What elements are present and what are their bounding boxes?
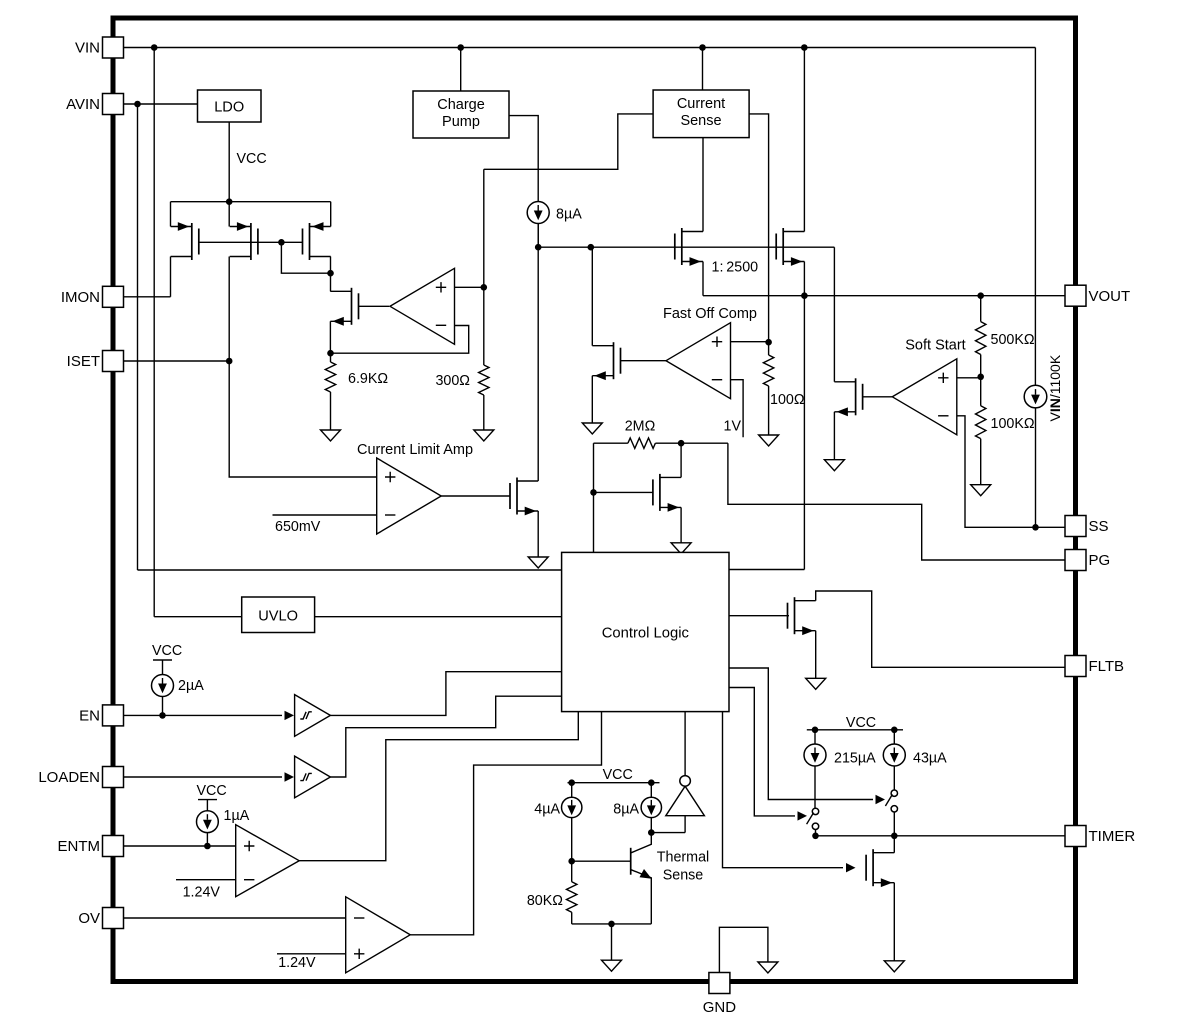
resistor R1 6.9K xyxy=(330,353,332,362)
svg-text:VCC: VCC xyxy=(603,767,633,783)
ground GND5 xyxy=(582,423,602,434)
svg-text:6.9KΩ: 6.9KΩ xyxy=(348,371,388,387)
svg-text:Thermal: Thermal xyxy=(657,850,709,866)
ground GND9 xyxy=(806,678,826,689)
pin OV xyxy=(103,908,124,929)
wire Q8 drain up to gate line xyxy=(591,247,593,346)
wire U3 plus input xyxy=(731,341,769,343)
svg-text:TIMER: TIMER xyxy=(1089,828,1136,845)
LDO U10 xyxy=(198,90,262,122)
current source I8 43uA xyxy=(883,744,905,766)
wire Q11 base lead xyxy=(572,860,631,862)
ground GND11 xyxy=(884,961,904,972)
wire control logic to VOUT rail sense xyxy=(729,569,804,571)
wire U6 gate lead xyxy=(863,396,893,398)
ground GND4 xyxy=(759,435,779,446)
ground GND1 xyxy=(321,430,341,441)
wire feedback U1 minus xyxy=(331,326,469,354)
current source I3 2uA xyxy=(152,675,174,697)
svg-text:500KΩ: 500KΩ xyxy=(991,332,1035,348)
wire Q7 drain to VIN rail xyxy=(803,48,805,232)
current source I4 1uA xyxy=(197,811,219,833)
pin PG xyxy=(1065,550,1086,571)
svg-text:650mV: 650mV xyxy=(275,519,321,535)
transistor Q3 (mirror right PMOS diode) xyxy=(330,202,332,227)
transistor Q10 (FLTB NMOS) xyxy=(794,597,796,634)
op-amp U5 (OV comp) xyxy=(346,897,411,973)
transistor Q2 (mirror middle PMOS) xyxy=(228,202,230,227)
node TIMER junctions xyxy=(812,833,819,840)
svg-text:Current Limit Amp: Current Limit Amp xyxy=(357,442,473,458)
wire control A to SW2 xyxy=(729,668,873,800)
svg-text:GND: GND xyxy=(703,999,737,1016)
transistor Q12 (timer NMOS) xyxy=(872,849,874,886)
wire Q4 source down xyxy=(329,321,331,353)
wire 650mV to U2 minus xyxy=(273,514,377,516)
ground GND6 xyxy=(671,543,691,554)
svg-text:80KΩ: 80KΩ xyxy=(527,893,563,909)
svg-text:Pump: Pump xyxy=(442,114,480,130)
transistor Q5 (current limit NMOS) xyxy=(516,478,518,515)
inverter INV1 (thermal) xyxy=(666,786,705,816)
svg-text:1V: 1V xyxy=(724,419,742,435)
wire U3 minus input 1V xyxy=(731,380,744,438)
ground GND3 xyxy=(528,557,548,568)
wire 1:2500 gate line xyxy=(538,246,834,248)
node VOUT rail junctions xyxy=(801,292,808,299)
op-amp U4 (ENTM comp) xyxy=(236,825,300,897)
wire OV pin wire xyxy=(124,917,346,919)
IC boundary box xyxy=(113,18,1076,982)
node fastoff drain junction xyxy=(588,244,595,251)
svg-text:VIN/1100K: VIN/1100K xyxy=(1047,354,1063,421)
wire PG path xyxy=(728,443,1065,560)
wire VIN rail xyxy=(124,47,1035,49)
transistor Q1 (mirror left PMOS) xyxy=(170,202,172,227)
schmitt trigger S1 (EN) xyxy=(295,695,331,737)
transistor Q8 (fast off NMOS) xyxy=(613,342,615,379)
node soft start plus junction xyxy=(977,374,984,381)
wire 2uA to EN xyxy=(162,697,164,716)
svg-text:1.24V: 1.24V xyxy=(278,955,316,971)
current source I5 4uA xyxy=(562,797,582,817)
wire AVIN down to Control Logic xyxy=(137,104,139,570)
svg-text:100Ω: 100Ω xyxy=(770,392,805,408)
transistor Q7 (sense FET right) xyxy=(782,228,784,265)
arrow EN input xyxy=(285,711,295,720)
wire timer VCC bar xyxy=(807,729,903,731)
pin TIMER xyxy=(1065,826,1086,847)
transistor Q11 (thermal BJT) xyxy=(630,848,632,875)
svg-text:1.24V: 1.24V xyxy=(183,885,221,901)
wire U6 plus input xyxy=(957,377,981,379)
pin ISET xyxy=(103,351,124,372)
node VIN rail junctions xyxy=(151,44,158,51)
wire thermal to ground xyxy=(611,924,613,960)
svg-text:VCC: VCC xyxy=(197,783,227,799)
wire EN VCC bar xyxy=(153,659,172,661)
node ISET junction xyxy=(226,358,233,365)
svg-text:300Ω: 300Ω xyxy=(435,373,470,389)
wire current sense right output xyxy=(749,114,769,343)
node ENTM junction xyxy=(204,843,211,850)
node mirror rail junction xyxy=(226,198,233,205)
wire AVIN to LDO xyxy=(124,103,198,105)
op-amp U3 (fast off comp) xyxy=(666,323,731,399)
wire VIN to current sense xyxy=(702,48,704,91)
wire U5 plus input 1.24V xyxy=(277,953,346,955)
wire Q15 drain up to gate line xyxy=(833,247,835,382)
svg-text:2MΩ: 2MΩ xyxy=(625,419,656,435)
node EN junction xyxy=(159,712,166,719)
pin SS xyxy=(1065,516,1086,537)
wire LDO VCC output xyxy=(228,122,230,202)
op-amp U1 (IMON amp) xyxy=(390,268,455,344)
svg-text:PG: PG xyxy=(1089,552,1111,569)
svg-text:ENTM: ENTM xyxy=(58,838,101,855)
node 100ohm junction xyxy=(765,339,772,346)
svg-text:4µA: 4µA xyxy=(534,802,560,818)
wire U3 output to Q8 gate xyxy=(621,360,667,362)
svg-text:LOADEN: LOADEN xyxy=(38,769,100,786)
wire Q5 source to ground xyxy=(537,511,539,557)
transistor Q4 (source follower) xyxy=(351,288,353,325)
arrow LOADEN input xyxy=(285,772,295,781)
pin EN xyxy=(103,705,124,726)
wire TIMER rail xyxy=(816,835,1066,837)
wire control D to Q12 gate xyxy=(723,712,844,868)
node Q9 gate junction xyxy=(590,489,597,496)
UVLO U14 xyxy=(242,597,315,633)
wire thermal bottom xyxy=(572,923,652,925)
ground GND10 xyxy=(602,960,622,971)
wire 1uA to ENTM xyxy=(206,832,208,846)
svg-text:Fast Off Comp: Fast Off Comp xyxy=(663,306,757,322)
wire thermal VCC bar xyxy=(568,782,660,784)
svg-text:Soft Start: Soft Start xyxy=(905,338,965,354)
wire EN pin wire xyxy=(124,714,282,716)
wire VIN to charge pump xyxy=(460,48,462,92)
svg-text:1µA: 1µA xyxy=(224,808,250,824)
resistor R6 100K xyxy=(980,377,982,406)
wire Q12 drain up xyxy=(893,836,895,853)
svg-text:VCC: VCC xyxy=(152,643,182,659)
wire control logic to Q10 gate xyxy=(729,615,789,617)
wire Q15 source to ground xyxy=(833,412,835,460)
svg-text:UVLO: UVLO xyxy=(258,609,298,625)
svg-text:8µA: 8µA xyxy=(613,802,639,818)
wire 2M left down to control logic xyxy=(593,443,595,552)
node 6.9K top junction xyxy=(327,350,334,357)
wire S1 output xyxy=(330,672,561,716)
Current Sense U12 xyxy=(653,90,749,138)
node thermal VCC junctions xyxy=(568,779,575,786)
svg-text:SS: SS xyxy=(1089,518,1109,535)
node thermal ground junction xyxy=(608,921,615,928)
Control Logic U13 xyxy=(562,552,729,711)
node 8uA junction xyxy=(535,244,542,251)
node Q3 drain junction xyxy=(327,270,334,277)
transistor Q9 (PG clamp NMOS) xyxy=(659,474,661,511)
wire Q5 drain up xyxy=(537,224,539,481)
current source I6 8uA thermal xyxy=(641,797,661,817)
resistor R7 80K xyxy=(571,861,573,882)
wire ISET pin wire xyxy=(124,360,229,362)
wire VOUT rail xyxy=(703,295,1065,297)
wire VIN down to UVLO xyxy=(153,48,155,617)
svg-text:Current: Current xyxy=(677,96,725,112)
pin VIN xyxy=(103,37,124,58)
wire Q9 drain up xyxy=(680,443,682,477)
pin AVIN xyxy=(103,94,124,115)
svg-text:8µA: 8µA xyxy=(556,207,582,223)
resistor R3 100 xyxy=(768,342,770,355)
current source I7 215uA xyxy=(804,744,826,766)
ground GND2 xyxy=(474,430,494,441)
node 2M right junction xyxy=(678,440,685,447)
svg-text:VCC: VCC xyxy=(237,151,267,167)
pin GND xyxy=(709,973,730,994)
wire Q10 drain to FLTB xyxy=(816,591,1065,667)
ground GND8 xyxy=(824,460,844,471)
svg-text:43µA: 43µA xyxy=(913,751,947,767)
wire mirror VCC rail xyxy=(171,201,331,203)
wire UVLO output xyxy=(315,616,562,618)
wire Q2 drain to ISET xyxy=(228,257,230,362)
wire U4 minus input 1.24V xyxy=(176,879,236,881)
wire gate line Q1-Q2-Q3 xyxy=(199,241,303,243)
wire charge pump output xyxy=(509,116,538,202)
wire Q9 source to ground xyxy=(680,507,682,542)
svg-text:FLTB: FLTB xyxy=(1089,658,1125,675)
wire U6 minus to SS xyxy=(957,416,1065,528)
svg-text:215µA: 215µA xyxy=(834,751,876,767)
pin ENTM xyxy=(103,836,124,857)
svg-text:OV: OV xyxy=(78,910,100,927)
wire ISET to CL amp plus xyxy=(229,361,377,477)
wire U5 output xyxy=(410,712,601,935)
wire Q3 drain to Q4 xyxy=(330,273,332,291)
wire Q6 source to VOUT rail xyxy=(702,262,704,296)
transistor Q6 (sense FET left) xyxy=(681,228,683,265)
wire Q4 gate to amp U1 xyxy=(359,305,390,307)
wire Q8 source to ground xyxy=(591,376,593,423)
wire GND pin bracket xyxy=(719,927,768,972)
wire Q12 source to ground xyxy=(893,883,895,961)
transistor Q15 (soft start NMOS) xyxy=(855,378,857,415)
svg-text:EN: EN xyxy=(79,708,100,725)
node SS junction xyxy=(1032,524,1039,531)
svg-text:VIN: VIN xyxy=(75,40,100,57)
svg-text:VOUT: VOUT xyxy=(1089,288,1131,305)
node timer VCC junctions xyxy=(812,727,819,734)
pin LOADEN xyxy=(103,767,124,788)
wire Q10 source to ground xyxy=(815,631,817,679)
current source I1 8uA xyxy=(527,202,549,224)
node mirror gate junction xyxy=(278,239,285,246)
wire VIN to current source VIN/1100K xyxy=(1034,48,1036,386)
pin VOUT xyxy=(1065,285,1086,306)
svg-text:LDO: LDO xyxy=(214,100,244,116)
wire Q7 source to VOUT rail xyxy=(803,262,805,296)
wire ENTM pin wire xyxy=(124,845,236,847)
wire INV1 input xyxy=(684,816,686,833)
svg-text:AVIN: AVIN xyxy=(66,96,100,113)
wire control logic to INV1 xyxy=(684,712,686,776)
current source I2 VIN/1100K xyxy=(1024,385,1047,408)
wire U4 output xyxy=(299,712,578,861)
Charge Pump U11 xyxy=(413,91,509,138)
wire Q9 gate lead xyxy=(594,491,653,493)
node 300ohm junction xyxy=(481,284,488,291)
node thermal base junction xyxy=(568,858,575,865)
wire Q1 drain to IMON xyxy=(170,257,172,297)
resistor R2 300 xyxy=(483,169,485,365)
op-amp U6 (soft start amp) xyxy=(892,359,957,435)
svg-text:Charge: Charge xyxy=(437,97,485,113)
wire U2 output to Q5 gate xyxy=(441,495,510,497)
ground GND12 xyxy=(758,962,778,973)
switch SW1 (215uA) xyxy=(812,808,818,814)
wire ENTM VCC bar xyxy=(198,799,217,801)
svg-text:VCC: VCC xyxy=(846,715,876,731)
svg-text:IMON: IMON xyxy=(61,289,100,306)
wire current sense left output xyxy=(484,114,653,169)
op-amp U2 (current limit amp) xyxy=(377,458,442,534)
svg-text:ISET: ISET xyxy=(67,353,100,370)
wire control B to SW1 xyxy=(729,688,795,816)
wire 8uA to gate line xyxy=(537,224,539,248)
resistor R4 2M xyxy=(594,442,628,444)
pin IMON xyxy=(103,286,124,307)
wire UVLO input xyxy=(154,616,242,618)
svg-text:100KΩ: 100KΩ xyxy=(991,416,1035,432)
wire current sense bottom to Q6 xyxy=(702,138,704,232)
wire S2 output xyxy=(330,696,561,777)
svg-text:1: 2500: 1: 2500 xyxy=(712,260,759,276)
svg-text:Sense: Sense xyxy=(663,868,704,884)
svg-text:2µA: 2µA xyxy=(178,678,204,694)
ground GND7 xyxy=(971,485,991,496)
wire U1 plus input xyxy=(455,286,484,288)
resistor R5 500K xyxy=(980,296,982,322)
node thermal BJT collector junction xyxy=(648,829,655,836)
svg-text:Control Logic: Control Logic xyxy=(602,626,690,642)
node AVIN junction xyxy=(134,101,141,108)
switch SW2 (43uA) xyxy=(891,790,897,796)
wire LOADEN pin wire xyxy=(124,776,282,778)
wire Q3 drain to gate junction xyxy=(330,257,332,274)
svg-text:Sense: Sense xyxy=(680,113,721,129)
pin FLTB xyxy=(1065,656,1086,677)
schmitt trigger S2 (LOADEN) xyxy=(295,756,331,798)
